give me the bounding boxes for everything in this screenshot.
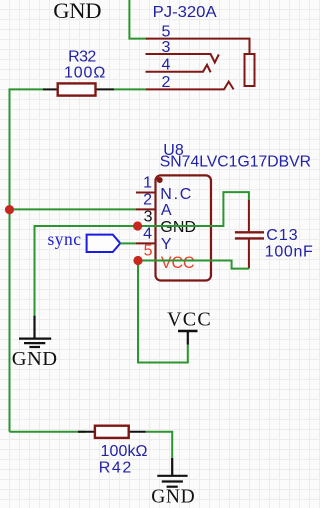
wire (R42 right to ground) <box>146 432 172 458</box>
wire (R32 right to jack pin 2) <box>114 88 146 90</box>
connector J1 PJ-320A body <box>146 39 255 90</box>
svg-text:5: 5 <box>144 243 153 260</box>
svg-text:2: 2 <box>161 74 170 91</box>
svg-text:A: A <box>161 202 172 219</box>
svg-text:100kΩ: 100kΩ <box>101 443 148 460</box>
net flag sync <box>87 235 121 252</box>
pin 4 line <box>136 242 156 244</box>
junction (pin 3) <box>133 221 142 230</box>
svg-text:GND: GND <box>12 348 57 370</box>
wire (VCC net: pin5 to C13 bottom) <box>138 261 249 269</box>
pin 2 line <box>136 208 156 210</box>
power VCC <box>178 331 198 345</box>
svg-text:GND: GND <box>160 219 196 236</box>
capacitor C13 <box>235 200 264 269</box>
svg-text:100Ω: 100Ω <box>64 64 105 81</box>
svg-text:PJ-320A: PJ-320A <box>153 4 217 21</box>
junction (pin 5) <box>133 256 142 265</box>
pin 4 line <box>146 65 211 73</box>
pin 1 marker dot <box>157 177 163 183</box>
resistor R42 <box>10 431 86 433</box>
resistor R32 <box>43 88 58 90</box>
svg-text:4: 4 <box>143 226 152 243</box>
svg-text:C13: C13 <box>266 227 298 244</box>
pin 5 line <box>146 39 250 54</box>
wire (GND net to jack pin 5) <box>129 0 147 39</box>
svg-text:R42: R42 <box>99 459 132 476</box>
svg-text:5: 5 <box>161 23 170 40</box>
svg-text:GND: GND <box>53 0 101 23</box>
pin 2 line <box>146 82 234 90</box>
svg-text:sync: sync <box>48 229 82 249</box>
op-amp/buffer U8 body <box>156 175 212 280</box>
junction (left rail) <box>5 205 14 214</box>
svg-text:1: 1 <box>143 175 152 192</box>
svg-text:GND: GND <box>151 486 195 507</box>
svg-text:3: 3 <box>144 208 153 225</box>
svg-text:R32: R32 <box>68 49 96 66</box>
pin 3 line <box>146 54 219 63</box>
svg-text:3: 3 <box>161 39 170 56</box>
svg-text:100nF: 100nF <box>265 243 313 260</box>
wire (R32 left to left rail) <box>10 89 44 431</box>
svg-text:N.C: N.C <box>160 186 191 203</box>
svg-text:SN74LVC1G17DBVR: SN74LVC1G17DBVR <box>160 153 311 170</box>
pin 1 line <box>136 192 156 194</box>
ground GND (bottom right) <box>157 458 187 487</box>
wire (GND net: symbol up, across pin 3, to C13 top) <box>35 192 249 316</box>
svg-text:Y: Y <box>161 236 172 253</box>
pin 5 line <box>136 260 156 262</box>
svg-text:VCC: VCC <box>167 309 211 331</box>
wire (VCC net: pin5 down to VCC symbol) <box>138 261 188 363</box>
svg-text:2: 2 <box>143 191 152 208</box>
svg-text:VCC: VCC <box>161 253 195 272</box>
pin 3 line <box>136 225 156 227</box>
jack sleeve rectangle <box>245 54 255 86</box>
ground GND (left) <box>19 316 51 347</box>
wire (sync to pin 4) <box>120 242 136 244</box>
svg-text:4: 4 <box>161 56 170 73</box>
wire (A input from junction to pin 2) <box>10 208 137 210</box>
